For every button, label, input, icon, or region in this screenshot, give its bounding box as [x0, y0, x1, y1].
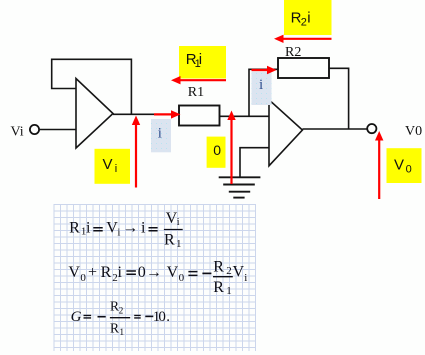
svg-text:R1: R1: [188, 85, 204, 100]
output terminal V0: [367, 124, 376, 133]
svg-text:2: 2: [119, 306, 124, 316]
svg-text:V: V: [106, 219, 118, 236]
svg-text:V: V: [167, 264, 179, 281]
wire R2 to output node: [329, 68, 349, 129]
arrow R1i (voltage arrow over R1): [171, 76, 226, 84]
label R1i (voltage across R1): [179, 46, 226, 79]
svg-text:i: i: [118, 264, 123, 281]
svg-text:0: 0: [213, 142, 221, 158]
svg-text:1: 1: [226, 285, 232, 297]
svg-text:i: i: [259, 77, 263, 93]
op-amp U2 (inverting amplifier): [269, 100, 302, 166]
wire feedback branch up from node 0: [249, 69, 278, 116]
label V0 (yellow): [387, 148, 422, 183]
wire Vi input to U1: [39, 129, 76, 131]
input terminal Vi: [30, 125, 39, 134]
arrow 0 (virtual ground voltage): [227, 111, 235, 185]
svg-text:V: V: [233, 264, 245, 281]
svg-text:i: i: [86, 219, 91, 236]
svg-text:i: i: [158, 126, 162, 142]
svg-text:R: R: [110, 299, 119, 314]
svg-text:V: V: [394, 157, 404, 174]
svg-text:i: i: [141, 219, 146, 236]
svg-text:.: .: [166, 309, 170, 325]
svg-text:i: i: [117, 226, 120, 238]
equation 1: R1i = Vi -> i = Vi/R1: [69, 210, 183, 250]
svg-text:i: i: [115, 163, 117, 175]
svg-text:i: i: [307, 9, 310, 26]
arrow i (current into R2): [252, 66, 277, 74]
svg-text:i: i: [199, 51, 202, 68]
svg-text:1: 1: [119, 328, 124, 338]
svg-text:0: 0: [80, 272, 86, 284]
resistor R1: [179, 106, 220, 126]
wire U1 output to R1: [113, 113, 179, 115]
svg-text:2: 2: [301, 17, 307, 29]
svg-text:0: 0: [138, 264, 146, 281]
svg-text:→: →: [122, 219, 138, 236]
svg-text:R: R: [213, 259, 224, 276]
node i highlight (current into R2): [252, 72, 272, 106]
arrow Vi (input voltage): [132, 116, 140, 188]
svg-text:Vi: Vi: [11, 125, 24, 140]
wire U1 feedback loop: [52, 59, 132, 114]
resistor R2: [278, 58, 329, 78]
node i highlight (current into R1): [151, 119, 171, 152]
svg-text:G: G: [71, 309, 82, 325]
svg-text:2: 2: [226, 265, 232, 277]
svg-text:V: V: [103, 156, 113, 173]
svg-text:0: 0: [158, 309, 166, 325]
svg-text:0: 0: [406, 163, 412, 175]
svg-text:→: →: [146, 264, 162, 281]
label Vi (yellow): [95, 149, 131, 184]
svg-text:+: +: [88, 264, 97, 281]
svg-text:V: V: [68, 264, 80, 281]
svg-text:V: V: [166, 210, 178, 227]
arrow i (current into R1): [154, 110, 181, 118]
equation 3: G = -R2/R1 = -10: [71, 299, 170, 339]
svg-text:R2: R2: [285, 45, 301, 60]
wire R1 to U2 inverting input (node 0): [220, 115, 270, 117]
label R2i (voltage across R2): [284, 0, 332, 35]
svg-text:1: 1: [176, 238, 182, 250]
grid paper background of equation block: [54, 204, 256, 351]
arrow V0 (output voltage): [375, 131, 383, 199]
wire U2 non-inverting input to ground: [240, 148, 269, 177]
svg-text:i: i: [177, 217, 180, 228]
ground: [219, 177, 261, 197]
op-amp U1 (voltage follower): [76, 79, 113, 149]
svg-text:R: R: [101, 264, 112, 281]
wire U2 output: [302, 128, 367, 130]
svg-text:i: i: [244, 272, 247, 284]
svg-text:R: R: [110, 320, 119, 335]
svg-text:0: 0: [179, 272, 185, 284]
svg-text:R: R: [69, 219, 80, 236]
arrow R2i (voltage arrow over R2): [274, 35, 332, 43]
svg-text:R: R: [164, 231, 175, 248]
equation 2: V0 + R2i = 0 -> V0 = -(R2/R1)Vi: [68, 259, 247, 297]
svg-text:R: R: [213, 279, 224, 296]
label 0 (virtual ground node): [207, 137, 226, 168]
svg-text:V0: V0: [405, 124, 422, 139]
